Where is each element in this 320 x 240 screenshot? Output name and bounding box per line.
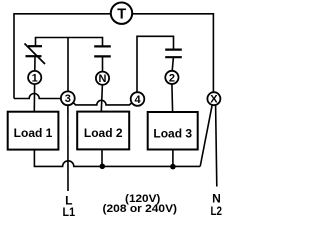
svg-text:2: 2 xyxy=(169,72,175,84)
svg-text:X: X xyxy=(210,94,218,106)
svg-text:3: 3 xyxy=(65,93,71,105)
svg-text:(208 or 240V): (208 or 240V) xyxy=(103,203,178,215)
svg-text:1: 1 xyxy=(32,72,38,84)
svg-text:4: 4 xyxy=(134,94,141,106)
svg-text:N: N xyxy=(99,73,107,85)
svg-text:Load 2: Load 2 xyxy=(84,126,123,140)
svg-text:Load 3: Load 3 xyxy=(153,126,192,140)
svg-text:Load 1: Load 1 xyxy=(14,126,53,140)
svg-text:L1: L1 xyxy=(63,205,76,219)
svg-text:T: T xyxy=(117,6,126,22)
svg-text:L2: L2 xyxy=(210,204,222,218)
